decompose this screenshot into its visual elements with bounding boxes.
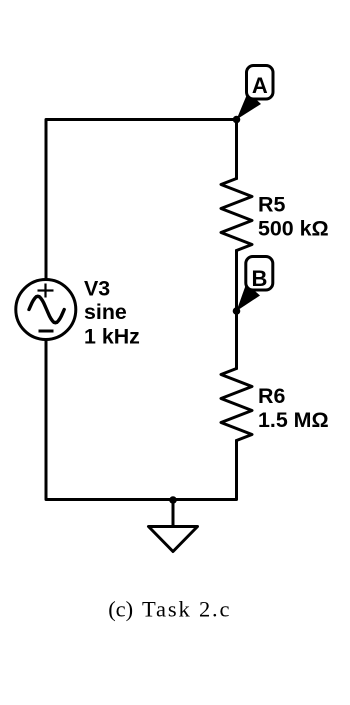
svg-text:R5: R5 [258,193,285,217]
svg-text:(c): (c) [108,597,133,622]
svg-text:B: B [252,266,268,291]
svg-text:Task 2.c: Task 2.c [142,597,230,622]
svg-text:V3: V3 [84,277,110,301]
svg-text:A: A [252,73,268,98]
svg-text:R6: R6 [258,384,285,408]
svg-text:sine: sine [84,300,127,324]
svg-text:1.5 MΩ: 1.5 MΩ [258,408,329,432]
svg-text:500 kΩ: 500 kΩ [258,217,329,241]
svg-text:1 kHz: 1 kHz [84,325,140,349]
